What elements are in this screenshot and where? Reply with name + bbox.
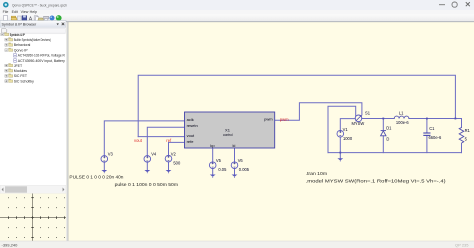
svg-text:Help: Help	[30, 10, 37, 14]
svg-text:Qorvo QSPICE™ - buck_prepare.q: Qorvo QSPICE™ - buck_prepare.qsch	[12, 3, 67, 7]
svg-text:ACT43950-102-RFPoL Voltage R: ACT43950-102-RFPoL Voltage R	[18, 54, 65, 58]
svg-text:0.05: 0.05	[218, 167, 227, 172]
svg-text:Modules: Modules	[14, 69, 27, 73]
svg-text:JFET: JFET	[14, 64, 23, 68]
svg-text:File: File	[3, 10, 9, 14]
svg-text:.model MYSW SW(Ron=.1 Roff=10M: .model MYSW SW(Ron=.1 Roff=10Meg Vt=.5 V…	[306, 178, 447, 183]
svg-text:pwm: pwm	[280, 117, 289, 122]
svg-text:660e-6: 660e-6	[429, 135, 442, 140]
svg-text:.tran 10m: .tran 10m	[306, 171, 328, 176]
svg-text:vout: vout	[187, 133, 195, 138]
svg-text:D1: D1	[386, 126, 392, 131]
svg-text:ref: ref	[166, 138, 172, 143]
svg-text:control: control	[223, 133, 233, 137]
svg-text:Behavioral: Behavioral	[14, 43, 31, 47]
svg-text:PULSE 0 1 0 0 0 20n 40n: PULSE 0 1 0 0 0 20n 40n	[69, 174, 124, 179]
svg-text:R1: R1	[465, 128, 471, 133]
svg-text:500: 500	[173, 161, 181, 166]
svg-text:V4: V4	[151, 152, 157, 157]
svg-text:S1: S1	[365, 110, 371, 115]
svg-text:Symbols & IP: Symbols & IP	[10, 33, 25, 37]
svg-text:resetn: resetn	[187, 123, 198, 128]
svg-text:Edit: Edit	[12, 10, 18, 14]
svg-text:aclk: aclk	[187, 117, 194, 122]
svg-text:Symbol & IP Browser: Symbol & IP Browser	[2, 23, 38, 27]
svg-text:V1: V1	[343, 127, 349, 132]
svg-text:Builtin Symbols(Native Devices: Builtin Symbols(Native Devices)	[14, 38, 51, 42]
svg-text:C1: C1	[429, 126, 435, 131]
svg-text:pwm: pwm	[264, 117, 273, 122]
svg-text:X1: X1	[225, 128, 231, 133]
svg-text:0.005: 0.005	[239, 167, 250, 172]
svg-text:1000: 1000	[343, 136, 353, 141]
svg-text:refe: refe	[187, 139, 195, 144]
svg-text:vout: vout	[134, 138, 143, 143]
svg-text:ACT43950-400V input, Battery: ACT43950-400V input, Battery	[18, 59, 65, 63]
svg-text:V2: V2	[171, 152, 177, 157]
svg-text:V6: V6	[238, 158, 244, 163]
svg-text:SiC FET: SiC FET	[14, 74, 28, 78]
svg-text:pulse 0 1 100n 0 0 50m 50m: pulse 0 1 100n 0 0 50m 50m	[115, 182, 179, 187]
svg-text:ki: ki	[233, 143, 236, 148]
svg-text:100e-6: 100e-6	[396, 120, 409, 125]
svg-text:SiC Schottky: SiC Schottky	[14, 79, 34, 83]
svg-text:V3: V3	[108, 151, 114, 156]
svg-text:V5: V5	[216, 158, 222, 163]
svg-text:Qorvo IP: Qorvo IP	[14, 48, 28, 52]
svg-text:View: View	[21, 10, 29, 14]
svg-text:-399,240: -399,240	[2, 243, 19, 248]
svg-text:QP 235: QP 235	[455, 242, 469, 247]
svg-text:D: D	[386, 136, 389, 141]
svg-text:L1: L1	[399, 110, 404, 115]
svg-text:MYSW: MYSW	[352, 121, 365, 126]
